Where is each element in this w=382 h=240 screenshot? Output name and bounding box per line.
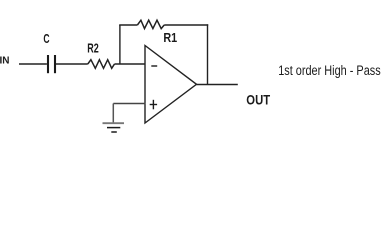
ground symbol (103, 123, 125, 132)
wire feedback right vertical down to output node (207, 24, 209, 85)
wire feedback top-left segment (119, 24, 137, 26)
wire capacitor to R2 (56, 63, 88, 65)
svg-text:IN: IN (0, 54, 10, 66)
ground stem wire (112, 104, 114, 124)
wire ground to op-amp non-inverting input (113, 103, 145, 105)
op-amp non-inverting pin plus sign (150, 100, 157, 110)
op-amp U1 triangle (145, 46, 197, 124)
resistor R1 (137, 20, 164, 28)
svg-text:1st order High - Pass: 1st order High - Pass (278, 63, 381, 78)
wire R2 to op-amp inverting input (115, 63, 146, 65)
wire feedback top-right segment (164, 24, 208, 26)
capacitor C (48, 55, 55, 73)
wire IN to capacitor (19, 63, 47, 65)
svg-text:R1: R1 (163, 30, 177, 45)
svg-text:C: C (43, 31, 50, 46)
op-amp inverting pin minus sign (151, 65, 157, 67)
svg-text:R2: R2 (87, 40, 99, 55)
node junction: feedback tap (119, 25, 121, 65)
resistor R2 (88, 60, 115, 69)
svg-text:OUT: OUT (246, 92, 270, 108)
wire op-amp output (197, 84, 238, 86)
